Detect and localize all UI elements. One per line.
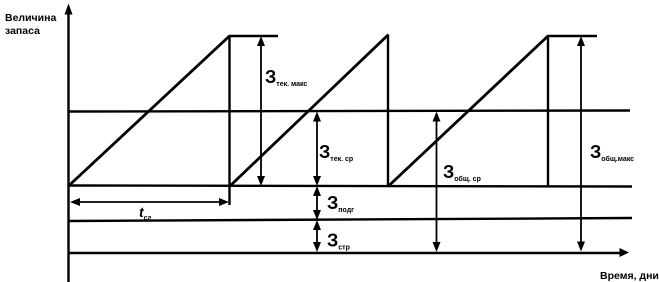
- svg-text:Зобщ.макс: Зобщ.макс: [590, 142, 634, 163]
- sawtooth 2 rising edge: [230, 35, 389, 187]
- svg-text:Величина: Величина: [5, 12, 56, 24]
- top line segment at peak 1: [229, 35, 278, 37]
- sawtooth 2 falling edge: [387, 35, 389, 187]
- intermediate horizontal line (safety level): [68, 218, 632, 221]
- horizontal t arrow (y=202, x 71..229): [70, 198, 229, 206]
- measure arrow Z str (x=317, y 220..252): [313, 220, 321, 252]
- measure arrow Z tek sr (x=317, y 112..186): [313, 112, 321, 187]
- measure arrow Z podg (x=317, y 186..220): [313, 186, 321, 220]
- svg-text:Зтек. ср: Зтек. ср: [319, 142, 353, 163]
- y axis arrowhead: [65, 4, 73, 15]
- svg-text:Зподг: Зподг: [327, 193, 354, 214]
- measure arrow Z tek maks (x=261, y 36..186): [257, 36, 265, 186]
- measure arrow Z obsh sr (x=436, y 112..252): [433, 112, 441, 253]
- sawtooth 1 falling edge: [228, 36, 230, 205]
- top line segment at peak 3: [548, 35, 597, 37]
- y axis: [67, 10, 69, 282]
- measure arrow Z obsh maks (x=581, y 36..251): [577, 36, 585, 252]
- sawtooth 1 rising edge: [69, 36, 230, 186]
- x axis arrowhead: [620, 248, 630, 257]
- base horizontal line (safety+prep level): [68, 186, 632, 187]
- svg-text:Время, дни: Время, дни: [600, 270, 659, 282]
- sawtooth 3 rising edge: [388, 36, 549, 187]
- svg-text:запаса: запаса: [5, 25, 40, 37]
- svg-text:tсг: tсг: [139, 204, 152, 222]
- middle horizontal line (average level): [68, 111, 630, 112]
- sawtooth 3 falling edge: [547, 36, 549, 187]
- x axis: [68, 252, 622, 254]
- svg-text:Зобщ. ср: Зобщ. ср: [443, 162, 481, 183]
- svg-text:Зстр: Зстр: [327, 231, 350, 252]
- svg-text:Зтек. макс: Зтек. макс: [265, 67, 307, 88]
